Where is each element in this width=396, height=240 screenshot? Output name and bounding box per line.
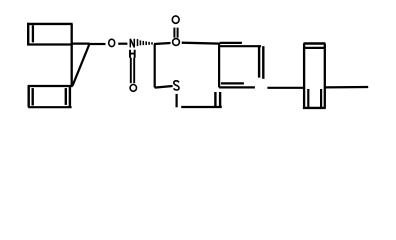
bond CH2 - O (horizontal) xyxy=(90,43,106,45)
atom O (ester) xyxy=(173,39,180,46)
central vertical bond (ring right edge continuing to lower ring) xyxy=(71,24,73,86)
ring A top partner double-bond line xyxy=(220,42,242,44)
ring A right doubled edge xyxy=(258,46,260,77)
ring B: bottom edge xyxy=(303,107,326,109)
ester C=O double bond lines xyxy=(173,28,175,38)
atom O (carbonyl top) xyxy=(172,16,179,23)
N=O double bond lines xyxy=(130,58,132,84)
ring B inner right double-bond line xyxy=(320,89,322,107)
benzene ring (top-left): top edge xyxy=(27,23,72,25)
bond S - CH2 (below S) xyxy=(176,94,178,107)
ring B inner left double-bond line xyxy=(307,89,309,107)
diagonal bond C9 - lower ring xyxy=(73,44,90,86)
bottom-left ring inner right double-bond line xyxy=(65,88,67,105)
benzene ring (top-left): left edge xyxy=(27,23,29,46)
benzene ring (top-left): bottom edge xyxy=(27,43,71,45)
bond ester O - ring A xyxy=(182,42,220,45)
ring B: left edge xyxy=(303,44,305,109)
benzene ring (bottom-left): bottom edge xyxy=(28,106,71,108)
bond chain bottom (horizontal) xyxy=(181,106,222,108)
atom S xyxy=(174,81,179,90)
benzene ring (bottom-left): left edge xyxy=(28,85,30,107)
ring B top partner double-bond line xyxy=(305,47,325,49)
ring A: top main edge xyxy=(220,45,261,47)
benzene ring (bottom-left): right edge xyxy=(69,86,71,107)
bond O - N xyxy=(118,43,127,45)
top-left ring inner double-bond line xyxy=(32,25,34,42)
atom O (carbamate O) xyxy=(109,39,115,46)
ring A bottom partner double-bond line xyxy=(221,82,244,84)
atom N xyxy=(130,39,134,48)
bond C9 - ring corner (horizontal) xyxy=(72,42,90,44)
benzene ring (bottom-left): top edge xyxy=(28,85,73,87)
bond CH2 - S xyxy=(155,86,173,88)
hashed wedge bond N - stereocenter (6 ticks) xyxy=(137,39,139,46)
ring B: right edge xyxy=(324,44,326,109)
bond stereocenter - ester O xyxy=(154,43,171,44)
atom O (N=O) xyxy=(130,85,136,92)
atom H (on N) xyxy=(129,50,135,58)
bond ring B - CH3 xyxy=(325,86,368,89)
ring B: top edge xyxy=(304,42,326,44)
bond ring A - ring B xyxy=(267,87,304,89)
ring A: bottom main edge xyxy=(219,86,255,88)
ring A: left edge xyxy=(218,43,220,87)
bond stereocenter - CH2 (vertical) xyxy=(154,44,156,88)
bottom-left ring inner left double-bond line xyxy=(32,88,34,105)
C=C double bond below ring A xyxy=(214,92,216,108)
